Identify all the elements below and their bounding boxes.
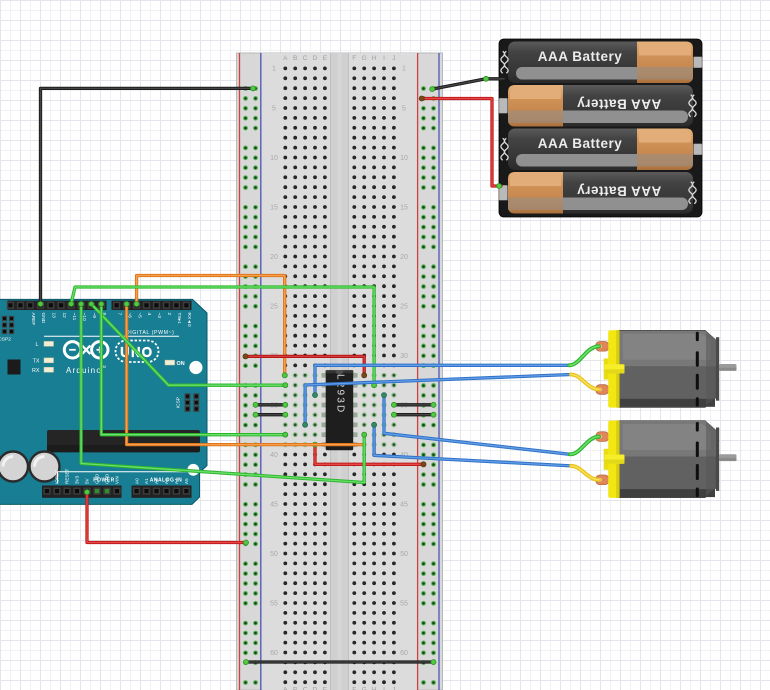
svg-text:60: 60 xyxy=(270,650,278,657)
svg-text:C: C xyxy=(303,687,308,690)
svg-text:H: H xyxy=(372,687,377,690)
svg-text:12: 12 xyxy=(61,313,67,319)
svg-text:H: H xyxy=(372,55,377,62)
svg-text:Arduino: Arduino xyxy=(66,366,102,375)
svg-text:RX◄0: RX◄0 xyxy=(186,313,192,327)
svg-text:ICSP: ICSP xyxy=(176,397,182,408)
svg-text:5V: 5V xyxy=(85,477,90,484)
svg-text:7: 7 xyxy=(116,313,122,316)
svg-text:A: A xyxy=(283,687,288,690)
svg-text:A0: A0 xyxy=(134,478,139,484)
svg-text:B: B xyxy=(293,687,297,690)
svg-text:55: 55 xyxy=(270,600,278,607)
svg-text:J: J xyxy=(392,687,395,690)
svg-text:5: 5 xyxy=(402,105,406,112)
svg-text:40: 40 xyxy=(270,452,278,459)
svg-text:A: A xyxy=(283,55,288,62)
svg-text:25: 25 xyxy=(400,303,408,310)
svg-text:10: 10 xyxy=(270,155,278,162)
svg-text:I: I xyxy=(383,687,385,690)
svg-text:ICSP2: ICSP2 xyxy=(0,337,11,343)
svg-text:B: B xyxy=(293,55,297,62)
svg-text:D: D xyxy=(313,55,318,62)
svg-text:50: 50 xyxy=(270,551,278,558)
svg-text:IOREF: IOREF xyxy=(55,470,60,484)
svg-text:I: I xyxy=(383,55,385,62)
svg-text:VIN: VIN xyxy=(115,476,120,484)
svg-text:~9: ~9 xyxy=(91,313,97,319)
svg-text:50: 50 xyxy=(400,551,408,558)
svg-text:30: 30 xyxy=(400,353,408,360)
svg-text:L293D: L293D xyxy=(335,374,346,414)
svg-text:1: 1 xyxy=(272,66,276,73)
svg-text:25: 25 xyxy=(270,303,278,310)
svg-text:GND: GND xyxy=(95,473,100,484)
svg-text:13: 13 xyxy=(51,313,57,319)
svg-text:RESET: RESET xyxy=(65,468,70,484)
svg-text:F: F xyxy=(352,687,356,690)
svg-text:A1: A1 xyxy=(144,478,149,484)
svg-text:45: 45 xyxy=(270,501,278,508)
svg-text:60: 60 xyxy=(400,650,408,657)
svg-text:~11: ~11 xyxy=(71,313,77,321)
svg-text:D: D xyxy=(313,687,318,690)
svg-text:55: 55 xyxy=(400,600,408,607)
svg-text:DIGITAL (PWM~): DIGITAL (PWM~) xyxy=(126,330,175,336)
svg-text:E: E xyxy=(323,55,328,62)
svg-text:1: 1 xyxy=(402,66,406,73)
svg-text:15: 15 xyxy=(270,204,278,211)
svg-text:J: J xyxy=(392,55,395,62)
svg-text:AAA Battery: AAA Battery xyxy=(577,184,662,199)
svg-text:TX: TX xyxy=(33,359,40,365)
svg-text:A5: A5 xyxy=(184,478,189,484)
svg-text:ON: ON xyxy=(177,361,185,367)
svg-text:TX▸1: TX▸1 xyxy=(176,313,182,325)
svg-text:5: 5 xyxy=(272,105,276,112)
svg-text:45: 45 xyxy=(400,501,408,508)
svg-text:C: C xyxy=(303,55,308,62)
svg-text:G: G xyxy=(362,687,367,690)
svg-text:G: G xyxy=(362,55,367,62)
svg-text:F: F xyxy=(352,55,356,62)
svg-text:~3: ~3 xyxy=(156,313,162,319)
svg-text:RX: RX xyxy=(32,368,40,374)
svg-text:A3: A3 xyxy=(164,478,169,484)
svg-text:E: E xyxy=(323,687,328,690)
svg-text:20: 20 xyxy=(270,254,278,261)
svg-text:GND: GND xyxy=(40,313,46,324)
svg-text:15: 15 xyxy=(400,204,408,211)
svg-text:A4: A4 xyxy=(174,478,179,484)
svg-text:AAA Battery: AAA Battery xyxy=(538,49,623,64)
svg-text:A2: A2 xyxy=(154,478,159,484)
svg-text:L: L xyxy=(36,342,39,348)
svg-text:AAA Battery: AAA Battery xyxy=(538,136,623,151)
svg-text:3V3: 3V3 xyxy=(75,475,80,484)
svg-text:10: 10 xyxy=(400,155,408,162)
svg-text:AAA Battery: AAA Battery xyxy=(577,97,662,112)
svg-text:20: 20 xyxy=(400,254,408,261)
svg-text:2: 2 xyxy=(166,313,172,316)
svg-text:AREF: AREF xyxy=(30,313,36,326)
svg-text:GND: GND xyxy=(105,473,110,484)
svg-text:~5: ~5 xyxy=(136,313,142,319)
svg-text:4: 4 xyxy=(146,313,152,316)
